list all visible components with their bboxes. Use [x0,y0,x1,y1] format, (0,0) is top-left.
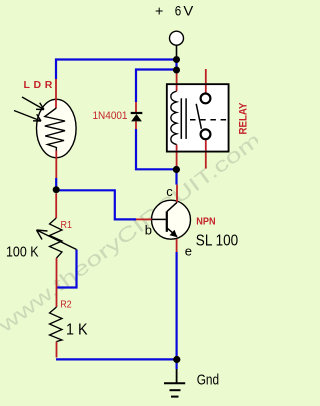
svg-text:LDR: LDR [24,79,56,91]
svg-text:NPN: NPN [196,216,215,228]
svg-text:Gnd: Gnd [197,373,219,389]
svg-text:1 K: 1 K [66,322,88,339]
svg-text:100 K: 100 K [6,244,39,261]
svg-text:b: b [145,222,152,237]
svg-text:+: + [155,4,163,19]
svg-text:RELAY: RELAY [238,102,250,135]
svg-text:1N4001: 1N4001 [93,110,128,122]
svg-text:SL 100: SL 100 [196,232,239,249]
svg-text:e: e [185,244,192,259]
svg-text:R2: R2 [60,299,72,310]
svg-text:V: V [183,4,193,19]
svg-text:R1: R1 [61,220,73,231]
svg-text:c: c [166,184,173,199]
svg-text:6: 6 [175,4,182,19]
